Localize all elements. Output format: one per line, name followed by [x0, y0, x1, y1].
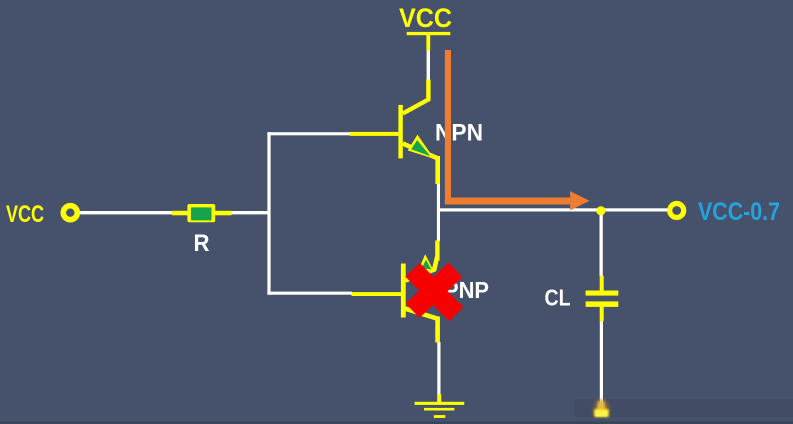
transistor Q2 PNP: emitter arrow (green)	[419, 254, 435, 272]
wire: center vertical white	[267, 132, 270, 295]
terminal (input) circle	[63, 206, 77, 220]
transistor Q2 PNP: emitter diagonal	[405, 257, 437, 281]
ground	[415, 402, 465, 418]
svg-text:VCC-0.7: VCC-0.7	[698, 198, 780, 226]
power rail VCC (bar)	[407, 32, 451, 35]
wire: yellow stub from rail	[426, 34, 430, 51]
wire: NPN emitter white segment	[437, 184, 440, 211]
current path arrow (orange)	[445, 50, 590, 210]
svg-text:VCC: VCC	[6, 201, 44, 228]
wire: top horizontal white to NPN base	[267, 132, 350, 135]
wire: yellow stub above ground	[437, 394, 441, 403]
terminal (output) circle	[670, 204, 684, 218]
wire: PNP collector white segment to ground	[437, 342, 440, 395]
resistor R: right lead	[215, 211, 232, 216]
wire: capacitor branch upper white	[600, 211, 603, 276]
transistor Q2 PNP: collector vertical lead	[435, 317, 440, 343]
transistor Q1 NPN: emitter arrow (green)	[408, 135, 434, 159]
red X cross-out over PNP	[413, 270, 457, 315]
wire: PNP emitter white segment	[437, 211, 440, 241]
resistor R: left lead	[172, 211, 188, 216]
dangling endpoint glow	[594, 400, 609, 418]
transistor Q1 NPN: base bar	[398, 105, 402, 158]
node: junction dot	[596, 206, 605, 215]
transistor Q2 PNP: collector diagonal	[405, 309, 438, 319]
svg-text:NPN: NPN	[435, 120, 483, 147]
transistor Q1 NPN: base lead yellow	[350, 132, 402, 136]
capacitor CL	[586, 276, 619, 322]
faint dark band bottom right	[574, 399, 793, 417]
svg-text:CL: CL	[545, 285, 571, 311]
svg-text:VCC: VCC	[399, 3, 452, 33]
transistor Q2 PNP: emitter vertical lead	[435, 241, 439, 261]
bottom edge dark strip	[0, 422, 793, 424]
wire: VCC stub white segment below rail	[427, 50, 430, 80]
wire: input horizontal from VCC terminal to resistor	[79, 211, 173, 214]
transistor Q2 PNP: base bar	[401, 264, 406, 318]
resistor R: body	[187, 204, 215, 222]
wire: resistor to center vertical	[231, 211, 269, 214]
transistor Q1 NPN: emitter diagonal	[403, 144, 438, 159]
transistor Q1 NPN: emitter vertical lead	[435, 156, 440, 184]
wire: bottom horizontal white to PNP base	[267, 292, 352, 295]
svg-text:R: R	[194, 230, 210, 257]
transistor Q1 NPN: collector lead	[403, 80, 429, 114]
transistor Q2 PNP: base lead yellow	[352, 292, 403, 296]
wire: output horizontal white	[437, 208, 669, 211]
wire: capacitor branch lower white	[600, 321, 603, 406]
